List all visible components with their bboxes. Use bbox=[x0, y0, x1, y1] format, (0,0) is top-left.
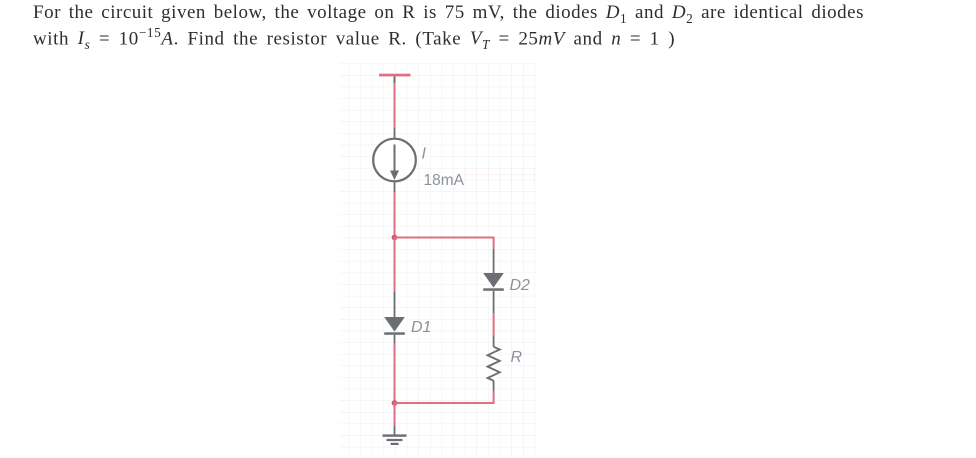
lead to ground bbox=[394, 426, 396, 435]
current source U1 circle bbox=[373, 139, 416, 182]
problem text line 2 bbox=[33, 25, 675, 53]
node A junction dot bbox=[392, 235, 398, 241]
wire: right branch top vertical bbox=[493, 237, 495, 249]
svg-text:18mA: 18mA bbox=[424, 172, 465, 189]
lead to D2 anode bbox=[493, 249, 495, 273]
wire: source to node A bbox=[394, 192, 396, 237]
lead from D2 cathode bbox=[493, 291, 495, 313]
diode D2 bbox=[483, 273, 504, 288]
current source arrow bbox=[394, 145, 396, 172]
top terminal bar bbox=[379, 74, 411, 77]
lead below current source bbox=[394, 181, 396, 192]
lead into current source top bbox=[394, 127, 396, 138]
lead to D1 anode bbox=[394, 292, 396, 317]
pink grid patch near 18mA bbox=[464, 167, 536, 186]
lead from resistor R bottom bbox=[493, 381, 495, 391]
svg-text:D1: D1 bbox=[411, 319, 431, 336]
problem text line 1 bbox=[33, 2, 864, 27]
diode D1 bbox=[384, 317, 405, 332]
wire: node A horizontal to right branch bbox=[395, 237, 495, 239]
wire: node B to ground bbox=[394, 403, 396, 426]
svg-text:I: I bbox=[422, 146, 427, 163]
resistor R zigzag bbox=[488, 347, 500, 381]
faint background grid bbox=[340, 62, 537, 458]
wire: bottom rail horizontal bbox=[395, 402, 495, 404]
lead from D1 cathode bbox=[394, 335, 396, 344]
wire: node A to D1 bbox=[394, 238, 396, 292]
lead to resistor R top bbox=[493, 337, 495, 347]
svg-text:R: R bbox=[511, 349, 523, 366]
wire: D2 to R bbox=[493, 313, 495, 337]
svg-text:D2: D2 bbox=[510, 277, 531, 294]
ground symbol bbox=[383, 434, 407, 436]
wire top vertical red bbox=[394, 83, 396, 127]
lead stub below top bar bbox=[394, 76, 396, 83]
node B junction dot bbox=[392, 400, 398, 406]
wire: D1 to node B bbox=[394, 344, 396, 403]
wire: R to bottom rail bbox=[493, 391, 495, 403]
